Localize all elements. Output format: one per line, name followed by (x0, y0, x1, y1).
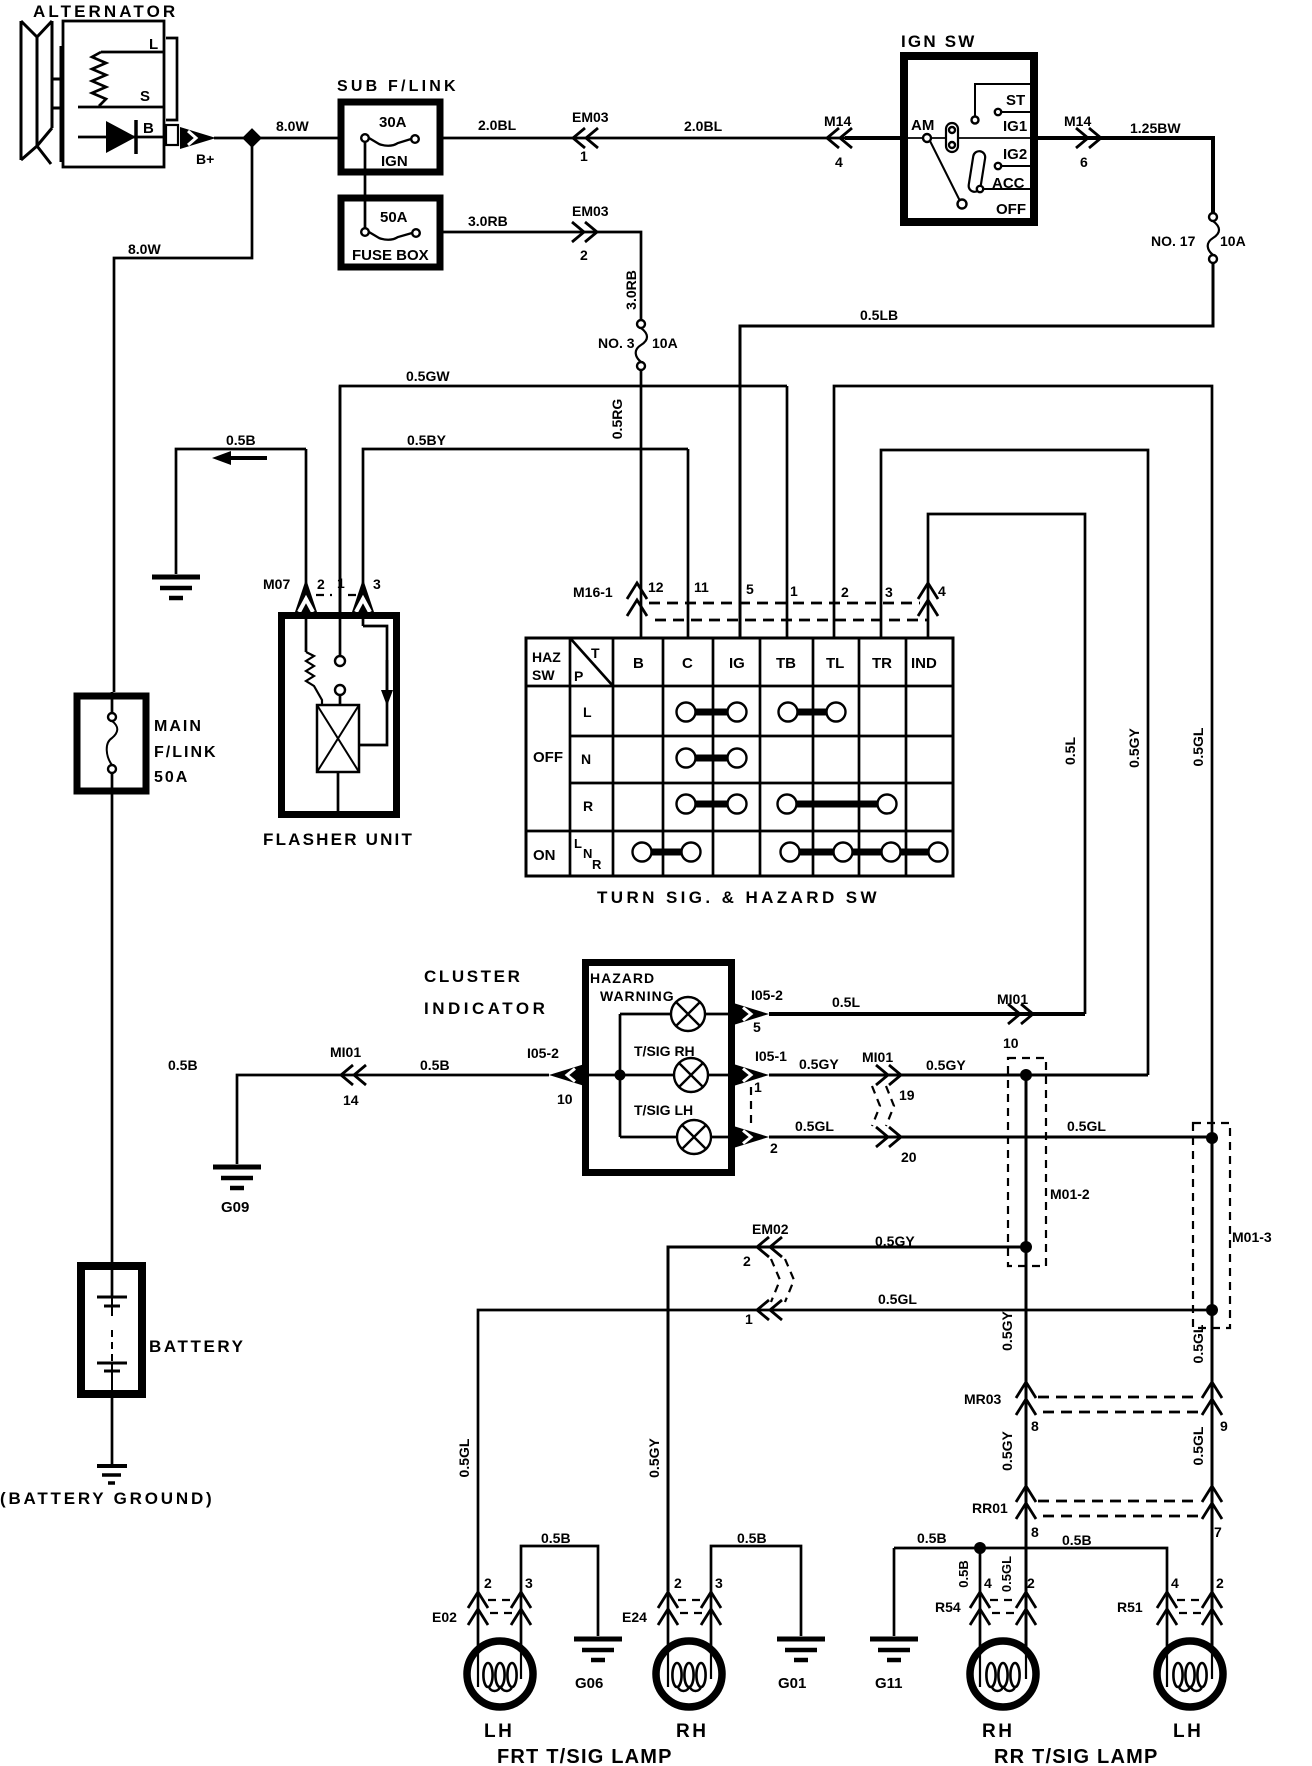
svg-text:ON: ON (533, 847, 556, 864)
svg-text:3: 3 (525, 1575, 533, 1591)
svg-text:(BATTERY GROUND): (BATTERY GROUND) (0, 1489, 214, 1508)
svg-text:R54: R54 (935, 1599, 961, 1615)
svg-text:0.5LB: 0.5LB (860, 307, 898, 323)
svg-text:R: R (583, 798, 593, 814)
svg-text:HAZARD: HAZARD (590, 970, 655, 986)
svg-text:FLASHER UNIT: FLASHER UNIT (263, 830, 414, 849)
svg-text:0.5GL: 0.5GL (1190, 1324, 1206, 1363)
svg-text:MI01: MI01 (862, 1049, 893, 1065)
svg-text:M07: M07 (263, 576, 290, 592)
svg-text:INDICATOR: INDICATOR (424, 999, 548, 1018)
svg-text:30A: 30A (379, 114, 407, 131)
svg-text:E24: E24 (622, 1609, 647, 1625)
svg-text:0.5GY: 0.5GY (1126, 728, 1142, 768)
svg-text:2: 2 (317, 576, 325, 592)
svg-text:10: 10 (557, 1091, 573, 1107)
svg-text:1: 1 (754, 1079, 762, 1095)
svg-text:RH: RH (676, 1721, 708, 1742)
svg-text:CLUSTER: CLUSTER (424, 967, 522, 986)
svg-text:EM03: EM03 (572, 203, 609, 219)
svg-text:0.5RG: 0.5RG (609, 399, 625, 440)
svg-text:F/LINK: F/LINK (154, 744, 218, 761)
svg-text:L: L (149, 36, 158, 53)
svg-text:9: 9 (1220, 1418, 1228, 1434)
svg-text:0.5B: 0.5B (917, 1530, 947, 1546)
svg-text:2: 2 (841, 584, 849, 600)
svg-text:20: 20 (901, 1149, 917, 1165)
svg-text:1.25BW: 1.25BW (1130, 120, 1181, 136)
svg-text:LH: LH (484, 1721, 514, 1742)
svg-text:M14: M14 (1064, 113, 1091, 129)
svg-text:G06: G06 (575, 1675, 603, 1692)
svg-text:0.5GL: 0.5GL (878, 1291, 917, 1307)
svg-text:HAZ: HAZ (532, 649, 561, 665)
svg-text:5: 5 (753, 1019, 761, 1035)
svg-text:LH: LH (1173, 1721, 1203, 1742)
svg-text:10: 10 (1003, 1035, 1019, 1051)
svg-text:1: 1 (745, 1311, 753, 1327)
svg-text:12: 12 (648, 579, 664, 595)
svg-text:MAIN: MAIN (154, 718, 203, 735)
svg-text:2: 2 (674, 1575, 682, 1591)
svg-text:14: 14 (343, 1092, 359, 1108)
svg-text:2: 2 (743, 1253, 751, 1269)
svg-text:6: 6 (1080, 154, 1088, 170)
svg-text:ACC: ACC (992, 175, 1025, 192)
svg-text:I05-2: I05-2 (527, 1045, 559, 1061)
svg-text:EM02: EM02 (752, 1221, 789, 1237)
svg-text:RH: RH (982, 1721, 1014, 1742)
svg-text:E02: E02 (432, 1609, 457, 1625)
svg-text:0.5GL: 0.5GL (456, 1438, 472, 1477)
svg-text:2: 2 (1216, 1575, 1224, 1591)
svg-text:3.0RB: 3.0RB (468, 213, 508, 229)
svg-text:0.5GW: 0.5GW (406, 368, 450, 384)
svg-text:G09: G09 (221, 1199, 249, 1216)
svg-text:50A: 50A (380, 209, 408, 226)
svg-text:TR: TR (872, 655, 892, 672)
svg-text:WARNING: WARNING (600, 988, 675, 1004)
svg-text:BATTERY: BATTERY (149, 1337, 246, 1356)
svg-text:3: 3 (373, 576, 381, 592)
svg-text:8.0W: 8.0W (276, 118, 309, 134)
svg-text:RR01: RR01 (972, 1500, 1008, 1516)
svg-text:ALTERNATOR: ALTERNATOR (33, 2, 178, 21)
svg-text:OFF: OFF (533, 749, 563, 766)
svg-text:0.5GY: 0.5GY (926, 1057, 966, 1073)
svg-text:N: N (583, 846, 592, 861)
svg-text:0.5B: 0.5B (1062, 1532, 1092, 1548)
svg-text:0.5B: 0.5B (420, 1057, 450, 1073)
svg-text:0.5B: 0.5B (737, 1530, 767, 1546)
svg-text:8: 8 (1031, 1524, 1039, 1540)
svg-text:IND: IND (911, 655, 937, 672)
svg-text:OFF: OFF (996, 201, 1026, 218)
svg-text:M16-1: M16-1 (573, 584, 613, 600)
svg-text:EM03: EM03 (572, 109, 609, 125)
svg-text:2.0BL: 2.0BL (478, 117, 517, 133)
svg-text:0.5B: 0.5B (541, 1530, 571, 1546)
svg-text:19: 19 (899, 1087, 915, 1103)
svg-text:0.5GY: 0.5GY (999, 1311, 1015, 1351)
svg-text:3: 3 (885, 584, 893, 600)
svg-text:MR03: MR03 (964, 1391, 1002, 1407)
svg-text:TURN SIG. & HAZARD SW: TURN SIG. & HAZARD SW (597, 888, 880, 907)
svg-text:M01-3: M01-3 (1232, 1229, 1272, 1245)
svg-text:0.5GY: 0.5GY (646, 1438, 662, 1478)
svg-text:1: 1 (580, 148, 588, 164)
svg-text:50A: 50A (154, 769, 189, 786)
svg-text:I05-2: I05-2 (751, 987, 783, 1003)
svg-text:P: P (574, 668, 583, 684)
svg-text:R51: R51 (1117, 1599, 1143, 1615)
svg-text:IGN SW: IGN SW (901, 32, 977, 51)
svg-text:4: 4 (984, 1575, 992, 1591)
svg-text:3: 3 (715, 1575, 723, 1591)
svg-text:0.5GL: 0.5GL (1067, 1118, 1106, 1134)
svg-text:IG1: IG1 (1003, 118, 1027, 135)
svg-text:4: 4 (938, 583, 946, 599)
svg-text:10A: 10A (652, 335, 678, 351)
svg-text:0.5GY: 0.5GY (999, 1431, 1015, 1471)
svg-text:N: N (581, 751, 591, 767)
svg-text:0.5GY: 0.5GY (799, 1056, 839, 1072)
svg-text:IGN: IGN (381, 153, 408, 170)
svg-text:MI01: MI01 (997, 991, 1028, 1007)
svg-text:1: 1 (790, 583, 798, 599)
svg-text:G01: G01 (778, 1675, 806, 1692)
svg-text:2: 2 (770, 1140, 778, 1156)
svg-text:B: B (143, 120, 154, 137)
svg-text:SUB F/LINK: SUB F/LINK (337, 78, 459, 95)
svg-text:TB: TB (776, 655, 796, 672)
svg-text:11: 11 (694, 579, 709, 595)
svg-text:3.0RB: 3.0RB (623, 270, 639, 310)
svg-text:0.5GL: 0.5GL (795, 1118, 834, 1134)
svg-text:G11: G11 (875, 1675, 903, 1692)
svg-text:T/SIG RH: T/SIG RH (634, 1043, 695, 1059)
svg-text:0.5B: 0.5B (226, 432, 256, 448)
svg-text:2: 2 (484, 1575, 492, 1591)
svg-text:0.5BY: 0.5BY (407, 432, 447, 448)
svg-text:0.5GL: 0.5GL (1190, 1426, 1206, 1465)
svg-text:2: 2 (580, 247, 588, 263)
svg-text:0.5B: 0.5B (956, 1560, 971, 1587)
svg-text:I05-1: I05-1 (755, 1048, 787, 1064)
svg-text:TL: TL (826, 655, 844, 672)
svg-text:8: 8 (1031, 1418, 1039, 1434)
svg-text:SW: SW (532, 667, 555, 683)
svg-text:0.5GL: 0.5GL (1190, 727, 1206, 766)
svg-text:0.5GY: 0.5GY (875, 1233, 915, 1249)
svg-text:C: C (682, 655, 693, 672)
svg-text:8.0W: 8.0W (128, 241, 161, 257)
svg-text:IG: IG (729, 655, 745, 672)
svg-text:L: L (583, 704, 592, 720)
svg-text:L: L (574, 836, 582, 851)
svg-text:M14: M14 (824, 113, 851, 129)
svg-text:RR T/SIG LAMP: RR T/SIG LAMP (994, 1746, 1159, 1766)
svg-text:FUSE BOX: FUSE BOX (352, 247, 429, 264)
svg-text:7: 7 (1214, 1524, 1222, 1540)
svg-text:0.5GL: 0.5GL (999, 1556, 1014, 1592)
svg-text:S: S (140, 88, 150, 105)
svg-text:R: R (592, 857, 602, 872)
svg-text:NO. 17: NO. 17 (1151, 233, 1196, 249)
svg-text:B: B (633, 655, 644, 672)
svg-text:NO. 3: NO. 3 (598, 335, 635, 351)
svg-text:0.5L: 0.5L (1062, 737, 1078, 765)
svg-text:T/SIG LH: T/SIG LH (634, 1102, 693, 1118)
svg-text:MI01: MI01 (330, 1044, 361, 1060)
svg-text:2: 2 (1027, 1575, 1035, 1591)
svg-text:4: 4 (1171, 1575, 1179, 1591)
svg-text:FRT T/SIG LAMP: FRT T/SIG LAMP (497, 1746, 673, 1766)
svg-text:4: 4 (835, 154, 843, 170)
svg-text:AM: AM (911, 117, 934, 134)
svg-text:ST: ST (1006, 92, 1025, 109)
svg-text:5: 5 (746, 581, 754, 597)
svg-text:B+: B+ (196, 151, 214, 167)
svg-text:0.5B: 0.5B (168, 1057, 198, 1073)
svg-text:M01-2: M01-2 (1050, 1186, 1090, 1202)
svg-text:2.0BL: 2.0BL (684, 118, 723, 134)
svg-text:0.5L: 0.5L (832, 994, 860, 1010)
svg-text:T: T (591, 645, 600, 661)
svg-text:1: 1 (337, 575, 345, 591)
svg-text:IG2: IG2 (1003, 146, 1027, 163)
svg-text:10A: 10A (1220, 233, 1246, 249)
